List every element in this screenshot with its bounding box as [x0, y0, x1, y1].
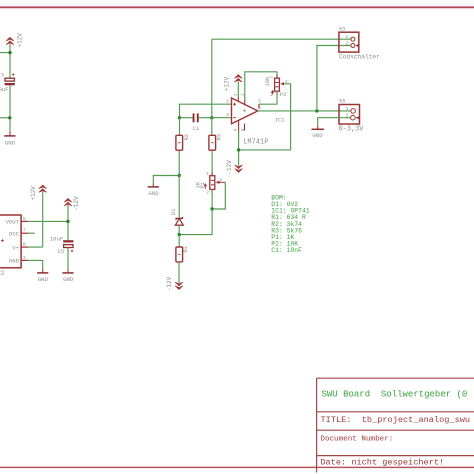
svg-text:1: 1	[206, 173, 209, 177]
svg-text:GND: GND	[38, 276, 49, 283]
wire GND pin3	[28, 260, 42, 269]
svg-text:+12V: +12V	[30, 186, 37, 201]
pin 1 stub	[244, 99, 246, 104]
svg-text:GND: GND	[312, 132, 323, 139]
node G junction	[315, 109, 318, 112]
svg-text:V+: V+	[12, 244, 19, 251]
svg-text:1: 1	[271, 76, 275, 79]
supply +12V arrow above op-amp	[224, 75, 243, 92]
svg-text:K5: K5	[339, 99, 345, 105]
capacitor C5	[50, 235, 74, 255]
svg-text:7: 7	[23, 228, 26, 234]
wire pin1 up and to P2 top	[245, 72, 277, 100]
wire R1 to -12V	[178, 262, 180, 283]
wire VOUT to -12V node	[28, 220, 68, 222]
capacitor C1	[193, 113, 200, 132]
wire -12V to C5	[67, 205, 69, 241]
wire G up to K3 pin2	[317, 46, 351, 111]
svg-text:K3: K3	[339, 27, 345, 33]
svg-text:2: 2	[345, 41, 348, 47]
svg-text:D1: D1	[171, 208, 177, 214]
BOM text block	[271, 194, 310, 254]
pin 8 stub NC	[244, 124, 246, 131]
wire to left edge row2	[0, 117, 10, 119]
svg-text:R2: R2	[184, 134, 190, 140]
junction	[8, 116, 11, 119]
svg-text:3: 3	[226, 112, 229, 118]
trimmer P2 pin stubs	[276, 75, 278, 95]
wire D to R1	[178, 235, 180, 247]
svg-text:GND: GND	[63, 276, 74, 283]
supply -12V arrow below R1	[166, 276, 183, 291]
svg-text:P2: P2	[280, 91, 287, 98]
wire stem +12V	[9, 44, 11, 79]
IC IC2 box	[0, 215, 21, 277]
wire C3 to gnd junction	[9, 85, 11, 131]
svg-text:GND: GND	[5, 139, 16, 146]
svg-text:IC1: IC1	[275, 118, 285, 124]
wire feedback vertical	[211, 39, 213, 118]
op-amp IC1 triangle	[226, 93, 284, 147]
svg-text:C1: C1	[193, 125, 200, 132]
svg-text:IC2: IC2	[0, 270, 5, 277]
wire op-amp pin2 row	[180, 104, 232, 118]
junction	[66, 220, 69, 223]
svg-text:GND: GND	[9, 258, 20, 265]
svg-text:10uF: 10uF	[50, 235, 63, 242]
wire V+ up	[42, 192, 44, 248]
wire pin4 down	[238, 131, 240, 166]
capacitor C3	[0, 71, 15, 93]
ground GND near K5	[312, 126, 324, 139]
wire D1 to node D	[178, 225, 180, 234]
wire +12V stem to pin7	[237, 81, 239, 96]
node E junction	[210, 207, 213, 210]
pin 7 OSC	[21, 228, 28, 234]
node C junction	[178, 174, 181, 177]
pin 8 V+	[21, 242, 28, 248]
node B junction	[210, 116, 213, 119]
ground GND left	[4, 131, 15, 147]
wire feedback top rail to K3	[212, 38, 351, 40]
svg-text:0-3,3V: 0-3,3V	[339, 126, 365, 134]
svg-text:GND: GND	[148, 190, 159, 197]
wire C1 to node B	[199, 117, 212, 119]
diode D1 zener	[171, 208, 183, 225]
svg-text:SWU Board Sollwertgeber (0: SWU Board Sollwertgeber (0	[322, 389, 468, 399]
ground GND below C5	[62, 269, 74, 283]
wire to left edge	[0, 52, 10, 54]
svg-text:LM741P: LM741P	[243, 139, 268, 147]
svg-text:-12V: -12V	[73, 196, 80, 211]
svg-text:TITLE: tb_project_analog_swu: TITLE: tb_project_analog_swu	[321, 415, 471, 425]
svg-text:C3: C3	[0, 71, 4, 78]
wire C to D1	[178, 176, 180, 219]
svg-text:2: 2	[207, 192, 210, 196]
supply +12V arrow top-left	[6, 33, 23, 48]
frame bottom border	[0, 466, 474, 468]
svg-text:4: 4	[233, 128, 239, 131]
resistor R1	[176, 246, 189, 262]
svg-text:1: 1	[346, 106, 349, 112]
wire R3 stems	[211, 118, 213, 176]
trimmer P1 pin stubs	[211, 172, 213, 192]
svg-text:1: 1	[345, 34, 348, 40]
svg-text:1K: 1K	[196, 181, 202, 188]
junction	[8, 51, 11, 54]
wire R2 stems	[178, 118, 180, 176]
node A junction	[178, 116, 181, 119]
node D junction	[178, 233, 181, 236]
frame top border	[0, 0, 474, 7]
node F junction	[237, 148, 240, 151]
svg-text:VOUT: VOUT	[6, 219, 20, 226]
trimmer P2	[265, 76, 288, 99]
trimmer P1	[196, 173, 223, 196]
resistor R3	[209, 134, 223, 150]
svg-text:5: 5	[23, 216, 26, 222]
connector K5	[339, 99, 365, 134]
wire K5 pin2 to gnd	[318, 118, 351, 126]
supply +12V arrow above IC2	[30, 185, 46, 201]
wire P1 wiper loop	[219, 181, 226, 183]
svg-text:OSC: OSC	[9, 230, 20, 237]
svg-text:8: 8	[23, 242, 26, 248]
svg-text:2: 2	[226, 99, 229, 105]
svg-text:C5: C5	[58, 248, 65, 255]
ground GND below IC2	[37, 269, 49, 283]
wire C5 to gnd	[67, 248, 69, 270]
pin 7 stub	[237, 97, 239, 102]
wire B to op-amp pin3	[212, 117, 232, 119]
svg-text:R1: R1	[183, 246, 189, 252]
svg-text:R3: R3	[217, 134, 223, 140]
connector K3	[339, 27, 380, 61]
svg-text:5: 5	[258, 99, 261, 105]
pin 5 stub	[258, 104, 260, 108]
svg-text:Document Number:: Document Number:	[320, 436, 393, 444]
ground GND mid	[148, 183, 160, 197]
supply -12V arrow below op-amp	[226, 160, 243, 175]
wire -12V bottom rail	[239, 149, 291, 151]
pin 3 GND	[21, 255, 28, 261]
svg-text:-12V: -12V	[166, 276, 173, 291]
svg-text:3: 3	[23, 255, 26, 261]
pin 5 VOUT	[21, 216, 28, 222]
title block	[317, 378, 474, 472]
svg-text:10uF: 10uF	[0, 86, 9, 93]
svg-text:C1: 10nF: C1: 10nF	[271, 247, 302, 254]
svg-text:+12V: +12V	[224, 76, 231, 91]
wire P2 bottom to pin5	[259, 91, 277, 104]
svg-text:Codschalter: Codschalter	[339, 54, 380, 61]
supply -12V arrow above C5	[64, 196, 80, 211]
wire P1 bottom to node E	[211, 189, 213, 209]
svg-text:-12V: -12V	[226, 160, 233, 175]
wire output	[258, 110, 351, 112]
wire E down to D1 row	[179, 209, 212, 235]
pin 4 stub	[238, 120, 240, 131]
wire OSC stub	[28, 232, 35, 234]
wire A to C1	[180, 117, 193, 119]
wire gnd tap	[153, 176, 179, 184]
wire P2 wiper down to -12V rail	[284, 84, 290, 150]
svg-text:+12V: +12V	[16, 33, 23, 48]
wire V+	[28, 246, 42, 248]
resistor R2	[176, 134, 190, 150]
svg-text:Date: nicht gespeichert!: Date: nicht gespeichert!	[320, 457, 444, 467]
